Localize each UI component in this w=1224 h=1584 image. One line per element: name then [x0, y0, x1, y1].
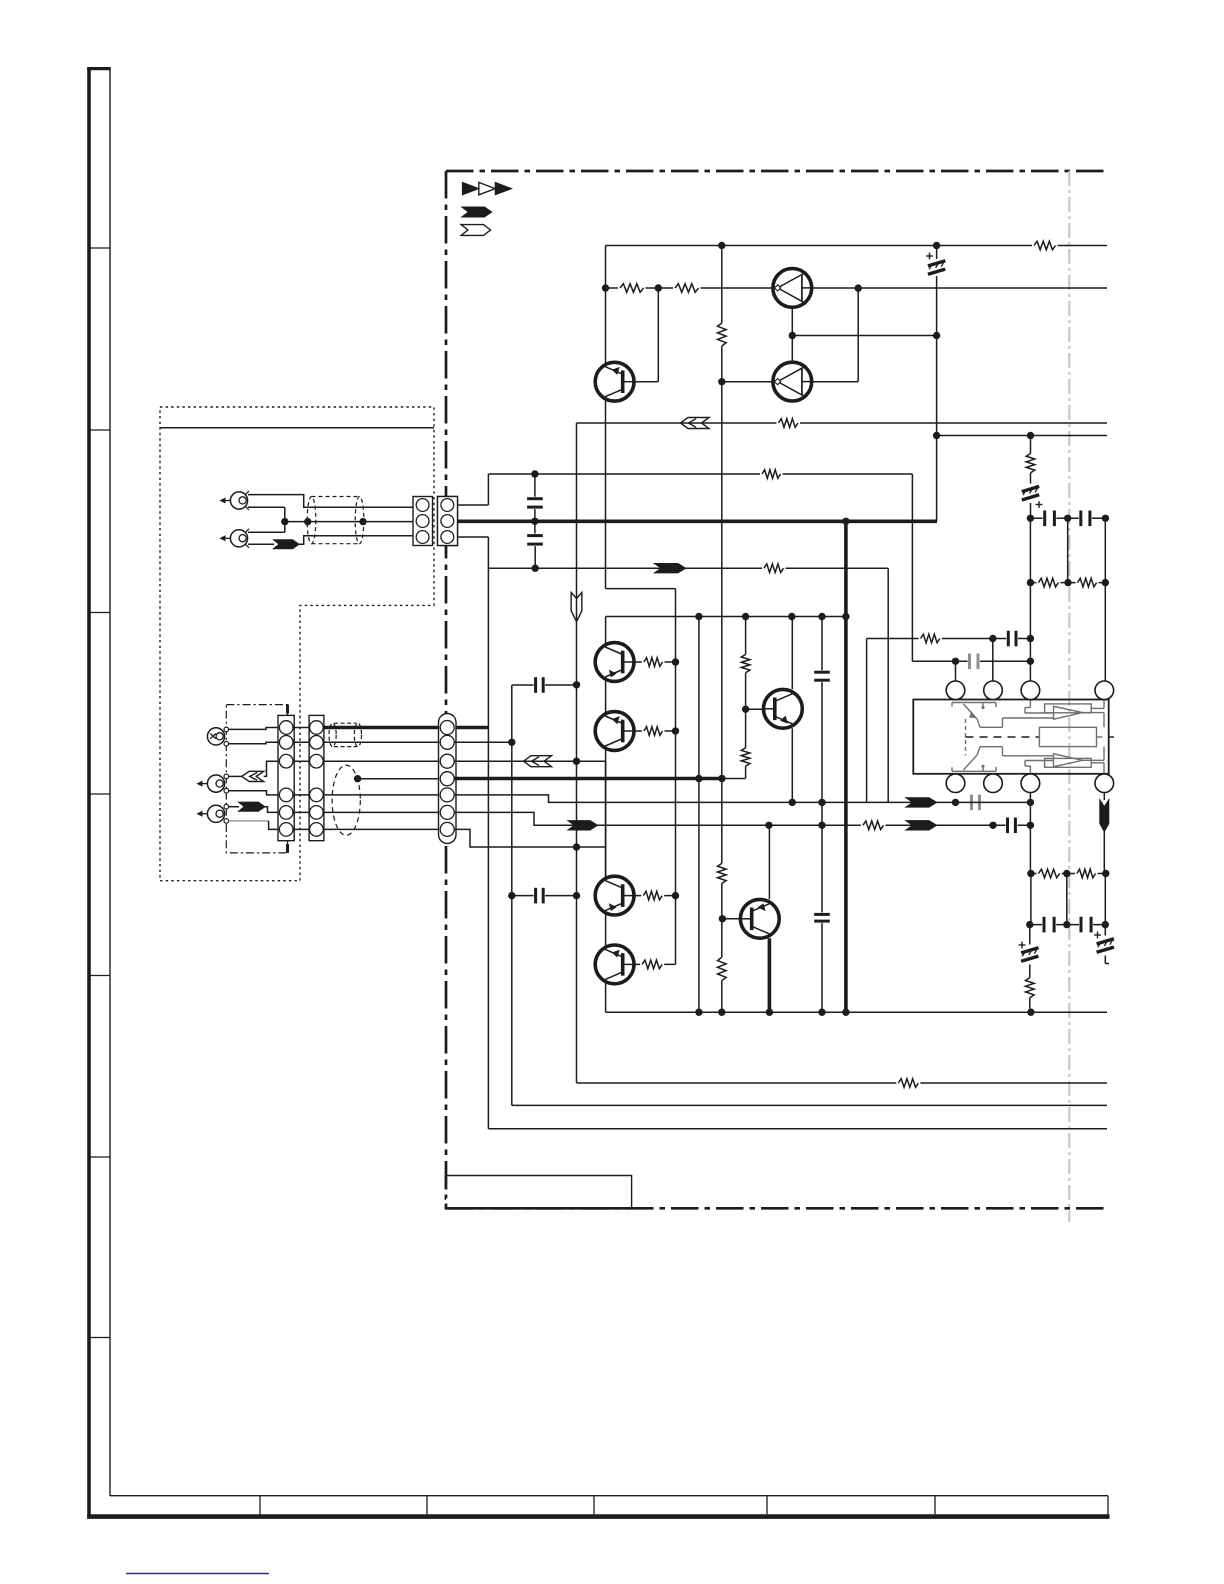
grey capacitor C8	[968, 654, 981, 670]
junction dot pin1 row right	[1027, 658, 1034, 665]
junction dot Q5 base bus	[672, 892, 679, 899]
resistor R2 on rail 2	[673, 283, 701, 294]
connector CN2 housing repaint	[438, 497, 458, 546]
wire Q5 base row	[620, 895, 676, 897]
open chevron arrow on J4 wire	[242, 771, 264, 781]
resistor R3 vertical	[718, 323, 727, 346]
vertical Q1 chain upper	[605, 246, 607, 589]
legend open banner arrow	[461, 225, 490, 236]
wire cap row lower	[1030, 924, 1106, 926]
junction dots on row 802	[789, 799, 796, 806]
IC U1 internal op-amp triangle upper	[1054, 706, 1083, 719]
main board dash-dot border top	[446, 170, 1109, 173]
wire Q3-Q4 collector jog	[606, 588, 676, 590]
vertical base tie Q1	[657, 288, 659, 382]
shielded cable symbol (small pair)	[329, 723, 336, 746]
capacitor C7	[1006, 631, 1018, 647]
RCA jack J2 (line in R)	[230, 530, 247, 547]
IC U1 internal op-amp triangle lower	[1054, 754, 1083, 767]
resistor R7 Q3 base	[642, 657, 665, 668]
RCA jack J3 (rec out)	[207, 728, 224, 745]
legend signal-flow triangle solid 1	[462, 182, 478, 194]
vertical Q7 collector	[768, 825, 770, 899]
dotted shield enclosure outline (L-shape)	[160, 407, 434, 881]
resistor R5 on mute row	[760, 469, 783, 480]
junction dot ground bus A	[281, 518, 288, 525]
shielded cable symbol (top pair)	[307, 496, 316, 543]
junction dot fb at C3	[573, 681, 580, 688]
wire Q6 base row	[620, 963, 676, 965]
wire rail V+ top	[606, 245, 1108, 247]
wire CN4-6 to CN5-7	[316, 828, 447, 830]
wire shield tap to CN5-4	[358, 778, 448, 780]
junction dot rail2 left	[602, 284, 609, 291]
wire row802 right segment	[956, 801, 1031, 803]
open chevron arrow on CN5-3 row	[524, 756, 552, 767]
transistor Q6	[595, 945, 634, 984]
thick wire CN5-4 row	[454, 777, 722, 781]
thick wire signal bus L	[454, 519, 937, 523]
electrolytic capacitor E4	[1097, 939, 1114, 944]
wire J1 signal to connector	[248, 495, 423, 508]
grey wire J5 gnd	[229, 820, 269, 822]
junction dot CN5-2 stub	[508, 739, 515, 746]
wire bias row	[606, 616, 846, 618]
IC U1 body outline	[913, 700, 1108, 774]
border row tick 2	[88, 429, 110, 431]
vertical E4 chain	[1104, 925, 1106, 936]
wire out row 1129	[488, 1128, 1107, 1130]
border column tick 5	[934, 1496, 936, 1515]
page border inner thin vertical	[109, 68, 111, 1496]
wire input row	[488, 567, 888, 569]
wire C4 row	[512, 895, 577, 897]
junction dot pin2 feed	[989, 635, 996, 642]
wire R10 to thick-bus end	[722, 778, 746, 780]
vertical ladder R19/E2	[1030, 436, 1032, 454]
border row tick 4	[88, 793, 110, 795]
junction dot ladder top	[718, 775, 725, 782]
resistor R16 vertical	[718, 957, 727, 981]
wire CN4-2 to CN5-2	[316, 741, 447, 743]
resistor R19 vertical	[1026, 454, 1035, 473]
IC U1 internal input bracket bottom	[952, 770, 996, 772]
junction dot ripple at ladder	[1027, 432, 1034, 439]
connector CN2 pin circles	[441, 499, 454, 512]
vertical Q9-Q10 tie	[791, 308, 793, 363]
legend signal-flow triangle open	[479, 182, 495, 194]
wire Q7 base	[722, 918, 750, 920]
junction dots resistor row lower	[1027, 870, 1034, 877]
vertical C2 link	[534, 521, 536, 535]
wire Q4 base row	[620, 730, 676, 732]
junction dot row825 right	[1027, 822, 1034, 829]
page border left thick rule	[87, 67, 91, 1519]
transistor Q4	[595, 712, 634, 751]
wire CN5-6 row	[454, 812, 993, 825]
connector CN4 pin circles	[310, 721, 324, 735]
junction dot row802 right	[1027, 799, 1034, 806]
main board dash-dot border left	[445, 171, 448, 1208]
junction dot bus at C1	[531, 518, 538, 525]
wire Q9-Q10 link	[792, 335, 936, 337]
junction dot op-amp in right	[1027, 635, 1034, 642]
transistor Q5	[595, 876, 634, 915]
IC U1 pin circles top row	[946, 681, 965, 700]
legend solid banner arrow	[462, 207, 492, 217]
wire J3 gnd to CN3-2	[229, 742, 287, 743]
wire op-amp in row	[867, 638, 1031, 640]
resistor R21	[1076, 577, 1099, 588]
resistor R4 inline top rail	[1032, 240, 1058, 251]
vertical pin4 to resistor row	[1103, 832, 1105, 874]
capacitor C11	[1043, 511, 1057, 527]
wire J1 ground drop	[248, 506, 285, 508]
vertical C1 link	[534, 474, 536, 499]
IC U1 pin circles bottom row	[946, 774, 965, 793]
resistor R13 Q5 base	[641, 890, 664, 901]
wire CN5-5 row	[454, 795, 956, 803]
resistor R22	[1036, 868, 1061, 879]
chassis ground bus line	[160, 427, 434, 429]
signal-flow solid arrow mid row825	[568, 821, 598, 830]
wire J5 pin to CN3-5	[229, 806, 239, 808]
junction dot Q8 base	[742, 706, 749, 713]
resistor R9 vertical	[741, 654, 750, 672]
capacitor C12	[1079, 511, 1092, 527]
wires CN3 to CN4	[286, 727, 316, 729]
vertical main feedback drop	[576, 423, 578, 1083]
capacitor C14	[1079, 917, 1093, 933]
wire Q3 base row	[620, 661, 676, 663]
vertical upper ladder links	[1029, 518, 1031, 582]
IC U1 internal input bracket top	[952, 702, 996, 704]
resistor R15 vertical	[718, 863, 727, 883]
wire CN4-3 to CN5-3	[316, 760, 447, 762]
junction dot top rail at bias ladder	[718, 242, 725, 249]
RCA jack J5 (play in R)	[207, 805, 224, 822]
resistor R12 on feedback row	[776, 418, 800, 429]
border row tick 5	[88, 975, 110, 977]
legend signal-flow triangle solid 2	[495, 182, 511, 194]
junction dot rail2 right	[855, 284, 862, 291]
wire feedback row	[577, 422, 1108, 424]
vertical decouple cap chain	[821, 617, 823, 674]
grey capacitor C9	[970, 795, 982, 811]
capacitor C10 on row825	[1006, 818, 1018, 834]
resistor R18	[896, 1078, 920, 1089]
vertical filter drop	[936, 246, 938, 260]
border row tick 6	[88, 1156, 110, 1158]
wire bottom common rail	[606, 1011, 1107, 1013]
resistor R10 vertical	[741, 748, 750, 766]
wire row825 right segment	[993, 824, 1030, 826]
resistor R17 on row825	[861, 820, 886, 831]
vertical bias ladder	[721, 246, 723, 324]
junction dot ground bus B	[304, 518, 311, 525]
IC U1 internal op-amp upper feedback box	[1045, 704, 1092, 713]
thick wire CN4-1 to CN5-1	[322, 726, 488, 730]
junction dots on row825	[765, 822, 772, 829]
border column tick 2	[426, 1496, 428, 1515]
resistor R24 vertical	[1026, 978, 1035, 998]
vertical pin2 feed	[992, 639, 994, 691]
junction dot input row at C2	[532, 565, 539, 572]
board-edge pill connector CN5 housing	[439, 714, 457, 844]
junction dots cap row upper	[1027, 515, 1034, 522]
wire cap row upper	[1030, 517, 1105, 519]
junction dot CN5-4 row	[695, 775, 702, 782]
border column tick 4	[766, 1496, 768, 1515]
wire J4 pin to CN3-3	[229, 775, 242, 777]
IC U1 internal op-amp lower feedback box	[1045, 758, 1092, 767]
resistor R6 on input row	[762, 563, 786, 574]
vertical input drop	[887, 568, 889, 802]
wire J5 gnd continuation	[269, 821, 287, 830]
border column tick 3	[593, 1496, 595, 1515]
resistor R8 Q4 base	[642, 726, 665, 737]
signal-flow solid arrow on J2 wire	[274, 540, 300, 549]
capacitor C4	[534, 888, 546, 904]
connector CN1 pin circles	[416, 499, 429, 512]
wire J4 pin continuation	[264, 761, 287, 776]
wire CN5-3 row with chevron	[454, 760, 606, 762]
vertical pin3 feed	[1029, 583, 1031, 691]
border row tick 1	[88, 247, 110, 249]
IC U1 internal pin3 tap lower	[1029, 766, 1031, 774]
vertical input net drop (CN5-1)	[487, 537, 489, 1129]
transistor Q7	[740, 899, 779, 938]
junction dots bias row	[695, 613, 702, 620]
junction dot mute row	[531, 470, 538, 477]
vertical Q8 collector	[791, 617, 793, 690]
vertical lower ladder links	[1030, 874, 1032, 925]
vertical R9/R10 chain	[745, 617, 747, 655]
junction dot row847	[573, 843, 580, 850]
vertical mirror source	[866, 639, 868, 803]
IC U1 internal diff pair upper	[964, 704, 978, 719]
wire J5 pin continuation	[265, 807, 286, 813]
footer link underline	[126, 1573, 269, 1575]
junction dot pin1 bottom	[952, 799, 959, 806]
junction dots bottom rail	[695, 1009, 702, 1016]
vertical E3 chain	[1029, 925, 1031, 945]
junction dot rail2 mid	[655, 284, 662, 291]
vertical net drop 2	[511, 685, 513, 1105]
wire C3 row	[512, 684, 576, 686]
wire CN2-1 jog to mute row	[447, 504, 488, 506]
junction dots resistor row upper	[1027, 579, 1034, 586]
wire Q10 base row	[722, 381, 858, 383]
wire mute row	[488, 473, 912, 475]
resistor R20	[1036, 577, 1060, 588]
junction dot Q4 base bus	[672, 727, 679, 734]
wire resistor row lower	[1031, 873, 1106, 875]
junction dot top rail at filter	[933, 242, 940, 249]
junction dot link right	[933, 332, 940, 339]
junction dot ripple at filter	[933, 432, 940, 439]
wire J3 pin to CN3-1	[229, 728, 287, 730]
capacitor C1	[527, 497, 543, 509]
vertical pin3 output chain	[1029, 793, 1031, 874]
connector block CN1 housing (cable side)	[413, 497, 433, 546]
vertical Q5 top feed	[605, 761, 607, 877]
wire CN4-5 to CN5-6	[316, 811, 447, 813]
electrolytic capacitor E3	[1021, 948, 1038, 953]
border column tick 1	[259, 1496, 261, 1515]
border row tick 7	[88, 1337, 110, 1339]
IC U1 internal pin3 tap upper	[1029, 700, 1031, 708]
IC U1 internal bias dashed line	[966, 736, 1040, 738]
solid down arrow below pin4	[1103, 793, 1105, 801]
junction dot shield tap	[354, 775, 361, 782]
page border bottom thick rule	[87, 1514, 1109, 1519]
capacitor C5	[814, 670, 830, 682]
wire ripple row	[937, 435, 1107, 437]
wire CN5-7 row	[454, 829, 606, 847]
page border bottom thin rule	[110, 1495, 1108, 1497]
dash-dot jack sub-enclosure	[226, 705, 287, 853]
vertical pin1 stub	[955, 661, 957, 690]
junction dot C4 left	[508, 892, 515, 899]
resistor R1 on rail 2	[618, 283, 646, 294]
vertical wire Q10 collector up	[857, 288, 859, 382]
resistor R11	[919, 633, 942, 644]
thick vertical main bus drop	[844, 521, 848, 1012]
empty label box on board bottom edge	[446, 1176, 632, 1209]
junction dot CN5-3 row	[573, 758, 580, 765]
wire pin1 feed row	[912, 660, 1030, 662]
wire rail 2	[606, 287, 1108, 289]
connector block CN2 housing (board side)	[438, 497, 458, 546]
connector CN5 pin circles	[440, 721, 454, 735]
vertical Q3-Q6 chain	[605, 617, 607, 1013]
grey channel-divider dash-dot line	[1068, 171, 1070, 1222]
electrolytic capacitor E2	[1022, 486, 1039, 491]
electrolytic capacitor E1	[928, 261, 945, 266]
resistor R23	[1075, 868, 1098, 879]
wire out row 1083	[577, 1082, 1108, 1084]
transistor Q9 (driver pair upper)	[773, 269, 812, 308]
capacitor C6	[814, 912, 830, 923]
junction dot Q10 base	[718, 378, 725, 385]
signal-flow solid arrow to IC pin1	[906, 798, 937, 807]
transistor Q8	[764, 689, 803, 728]
vertical mute drop	[911, 474, 913, 661]
vertical Q3/Q4 base bus	[675, 589, 677, 965]
IC U1 internal output cell box	[1039, 727, 1096, 746]
shielded cable symbol (large bundle)	[332, 765, 360, 835]
resistor R14 Q6 base	[640, 959, 664, 970]
junction dot fb at C4	[573, 892, 580, 899]
ground bus wire to connector	[285, 521, 423, 523]
junction dot pin2 bottom	[989, 822, 996, 829]
junction dots cap row lower	[1026, 921, 1033, 928]
signal-flow solid arrow to IC pin2	[906, 821, 937, 830]
resistor R7	[642, 657, 665, 668]
transistor Q10 (driver pair lower)	[773, 362, 812, 401]
vertical Q8 emitter	[791, 728, 793, 802]
wire out row 1105	[512, 1104, 1107, 1106]
signal-flow solid arrow input row	[654, 564, 685, 573]
wire J2 ground	[248, 531, 285, 533]
connector CN3 pin circles	[279, 721, 293, 735]
wire Q1 base to divider	[634, 381, 658, 383]
junction dot pin1 feed	[952, 658, 959, 665]
transistor Q1	[595, 362, 634, 401]
wire resistor row upper	[1030, 582, 1105, 584]
junction dot Q3 base bus	[672, 658, 679, 665]
connector block CN4 housing	[309, 715, 324, 840]
connector block CN3 housing	[278, 715, 294, 840]
wire CN5-2 stub	[454, 741, 512, 743]
capacitor C13	[1042, 917, 1056, 933]
capacitor C3	[534, 677, 546, 693]
vertical left return bus	[698, 617, 700, 1013]
junction dot Q7 base	[719, 915, 726, 922]
wire CN4-4 to CN5-5	[316, 794, 447, 796]
junction dot ground bus C	[359, 518, 366, 525]
RCA jack J1 (line in L)	[230, 492, 247, 509]
page border top cap	[87, 67, 111, 70]
junction dot link left	[789, 332, 796, 339]
wire E4 exit stub	[1105, 963, 1109, 965]
IC U1 internal diff pair lower	[964, 755, 978, 770]
vertical pin4 feed	[1104, 583, 1106, 691]
wire J4 gnd to CN3-4	[229, 791, 287, 795]
capacitor C2	[527, 534, 543, 547]
thick wire Q7 emitter	[768, 938, 772, 1012]
transistor Q3	[595, 643, 634, 682]
border row tick 3	[88, 612, 110, 614]
wire Q8 base	[746, 708, 764, 710]
open chevron arrow on feedback row	[681, 418, 710, 429]
hollow down arrow on feedback drop	[571, 593, 582, 622]
signal-flow solid arrow on J5 wire	[239, 802, 266, 811]
wire J2 signal to connector	[248, 543, 274, 545]
vertical ground tie at jacks	[284, 507, 286, 532]
wire J2 signal continuation	[299, 536, 423, 545]
main board dash-dot border bottom	[446, 1207, 1105, 1210]
RCA jack J4 (play in L)	[207, 775, 224, 792]
wire CN5-3 top jog	[447, 536, 488, 538]
border column tick 6	[1107, 1496, 1109, 1515]
connector CN2 pin circles repaint	[441, 499, 454, 512]
junction dot bus at main	[842, 518, 849, 525]
